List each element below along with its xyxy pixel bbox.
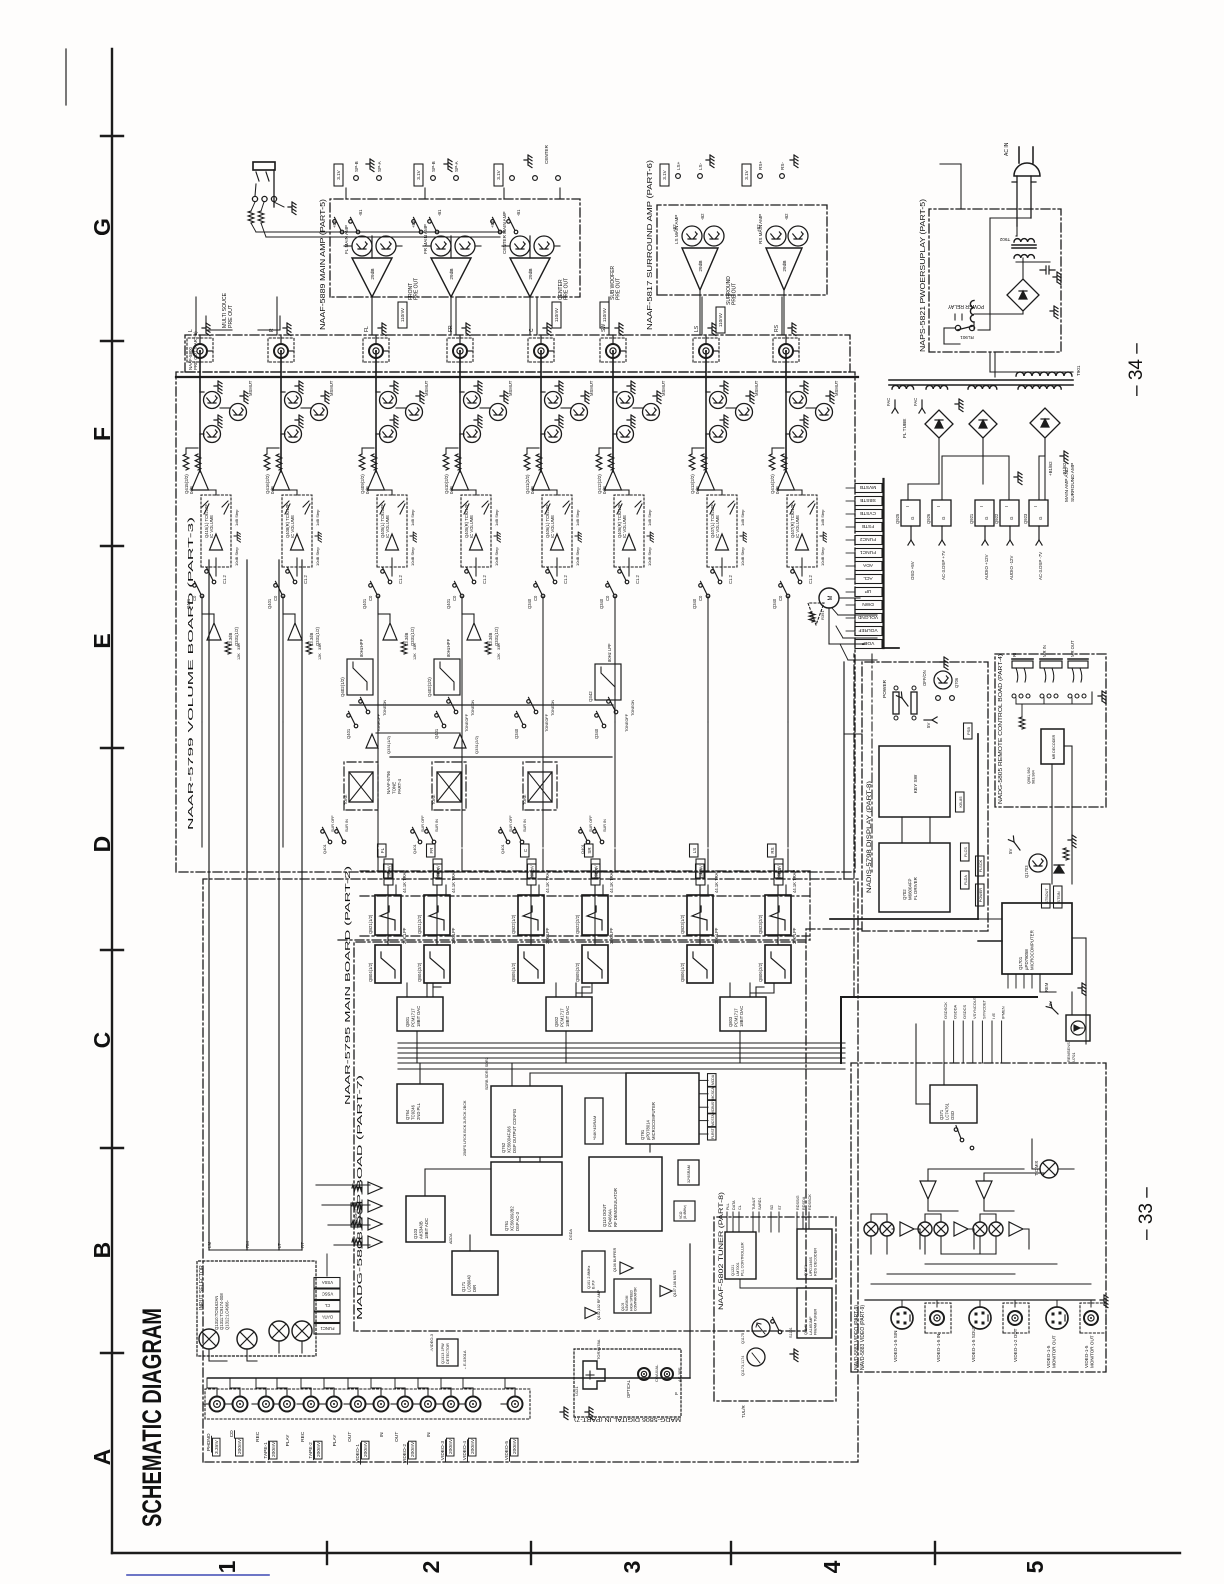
svg-text:FUNC1: FUNC1 bbox=[320, 1326, 335, 1331]
svg-text:IN: IN bbox=[379, 1432, 385, 1437]
svg-text:TONEOFF: TONEOFF bbox=[545, 713, 549, 732]
wire preout feeds bbox=[199, 360, 201, 372]
wire bbox=[467, 350, 473, 352]
ground bbox=[788, 323, 796, 336]
svg-text:QB22(2/2): QB22(2/2) bbox=[575, 914, 580, 934]
svg-text:TORX178A: TORX178A bbox=[596, 1339, 601, 1360]
wire relay routing bbox=[989, 218, 991, 330]
svg-text:44.1K TRAP: 44.1K TRAP bbox=[451, 870, 456, 893]
svg-text:TUL/R: TUL/R bbox=[741, 1405, 746, 1418]
wire dsp-display dash link bbox=[805, 929, 807, 942]
svg-text:SP-A: SP-A bbox=[377, 160, 382, 172]
transistor output pair bbox=[766, 226, 786, 246]
svg-text:+B2: +B2 bbox=[756, 224, 761, 232]
switch C1 bbox=[553, 580, 557, 584]
net tag KB-85 bbox=[956, 792, 965, 812]
wire regulator output bbox=[984, 526, 986, 540]
svg-text:200mV: 200mV bbox=[448, 1438, 454, 1454]
svg-text:PD4664A: PD4664A bbox=[608, 1209, 613, 1227]
svg-text:PLL: PLL bbox=[726, 1203, 730, 1210]
op-amp 13.3dB bbox=[207, 623, 221, 640]
transistor Q409 mute pair bbox=[380, 392, 397, 409]
wire source line bbox=[246, 560, 248, 1250]
motor M volume bbox=[819, 588, 839, 608]
source jack PHONO bbox=[210, 1397, 225, 1412]
svg-text:SUR OFF: SUR OFF bbox=[589, 815, 593, 832]
net tags FLCS FLSCK FLDA POWER bbox=[961, 843, 970, 861]
svg-text:R391: R391 bbox=[820, 610, 825, 620]
wire trap to volume bbox=[395, 885, 397, 895]
capacitor bbox=[1040, 266, 1055, 274]
ADC Q103 AK5340B bbox=[406, 1196, 445, 1242]
DAC Q801 PCM1717 bbox=[397, 997, 443, 1031]
svg-text:MVSTB: MVSTB bbox=[860, 484, 877, 490]
DSP Q762 XC56004FJ66 output config bbox=[491, 1086, 562, 1157]
svg-text:C1.2: C1.2 bbox=[303, 574, 308, 584]
wire dac outputs bbox=[406, 983, 408, 997]
svg-text:STSOUT: STSOUT bbox=[1045, 888, 1049, 904]
svg-text:18BIT DAC: 18BIT DAC bbox=[416, 1006, 421, 1027]
svg-text:0dB: 0dB bbox=[365, 486, 370, 494]
transistor Q501 output pair bbox=[352, 236, 372, 256]
svg-text:*64K*4DRAM: *64K*4DRAM bbox=[592, 1116, 597, 1140]
op-amp Q414 0dB bbox=[778, 470, 795, 490]
op-amp 13.3dB bbox=[383, 623, 397, 640]
resistor feedback bbox=[485, 642, 491, 654]
svg-text:Q401: Q401 bbox=[186, 598, 191, 609]
svg-text:I: I bbox=[1004, 506, 1009, 507]
svg-text:+B1: +B1 bbox=[332, 220, 337, 228]
filter QB21(2/2) 44.1K TRAP bbox=[424, 895, 450, 935]
microcomputer Q1701 uPD78058 bbox=[1002, 903, 1072, 974]
svg-text:2ND PLL: 2ND PLL bbox=[416, 1102, 421, 1120]
svg-text:NAAF-5817 SURROUND AMP (PART-6: NAAF-5817 SURROUND AMP (PART-6) bbox=[645, 159, 654, 330]
svg-text:MSMUT: MSMUT bbox=[834, 380, 839, 396]
power amp FR MAIN AMP triangle bbox=[431, 258, 471, 297]
svg-text:-B2: -B2 bbox=[700, 213, 705, 220]
wire display to micro bus bbox=[978, 940, 1002, 942]
transistor mute bbox=[643, 404, 660, 421]
switch C1 bbox=[293, 580, 297, 584]
IC volume Q407(R) dotted block bbox=[787, 495, 817, 567]
svg-text:G: G bbox=[1038, 516, 1043, 520]
svg-text:POWER RELAY: POWER RELAY bbox=[947, 303, 984, 309]
svg-text:CL: CL bbox=[738, 1205, 742, 1210]
svg-text:IN: IN bbox=[426, 1432, 432, 1437]
switch Q401 C0 bbox=[376, 594, 380, 598]
resistor variable bbox=[202, 501, 209, 514]
net tag 200mV SR bbox=[591, 859, 600, 885]
svg-text:FLDA: FLDA bbox=[964, 875, 968, 885]
svg-text:AC-3.DSP +7V: AC-3.DSP +7V bbox=[941, 551, 946, 580]
net tag 200mV adc bbox=[351, 1203, 360, 1227]
border frame vertical rule with grid numbers bbox=[112, 1552, 1180, 1554]
grid tick bbox=[326, 1542, 328, 1564]
svg-text:3: 3 bbox=[619, 1561, 645, 1574]
transistor mute bbox=[816, 404, 833, 421]
svg-text:NAAR-5799 VOLUME BOARD (PART-: NAAR-5799 VOLUME BOARD (PART-3) bbox=[186, 516, 195, 830]
source jack OUT bbox=[351, 1397, 366, 1412]
rectifier bridge DSP bbox=[969, 410, 997, 438]
wire regulator output bbox=[1009, 526, 1011, 540]
switch Q401 C0 bbox=[460, 594, 464, 598]
wire source line bbox=[208, 560, 210, 1250]
svg-text:IC VOLUME: IC VOLUME bbox=[209, 515, 214, 538]
svg-text:MONITOR OUT: MONITOR OUT bbox=[1051, 1335, 1056, 1368]
switch Q340 C0 bbox=[613, 594, 617, 598]
wire amp rails bbox=[371, 297, 373, 335]
svg-text:QB23(1/2): QB23(1/2) bbox=[680, 914, 685, 934]
svg-text:ST: ST bbox=[778, 1204, 782, 1210]
power amp FL MAIN AMP triangle bbox=[352, 258, 392, 297]
speaker terminal circle bbox=[454, 176, 459, 181]
svg-text:Q921: Q921 bbox=[969, 513, 974, 524]
wire volume control bus bbox=[829, 643, 866, 645]
svg-text:FUNC1: FUNC1 bbox=[860, 549, 876, 555]
svg-text:C0: C0 bbox=[192, 595, 197, 601]
wire to speaker bbox=[424, 188, 426, 199]
pre-out jack FL bbox=[363, 338, 389, 362]
wire main board to display bbox=[843, 662, 845, 879]
wire channel Q416 spine bbox=[280, 351, 282, 470]
svg-text:T901: T901 bbox=[1076, 365, 1081, 376]
transistor Q1703 bbox=[1029, 854, 1047, 872]
svg-text:3.1V: 3.1V bbox=[496, 169, 501, 179]
svg-text:MONITOR OUT: MONITOR OUT bbox=[1089, 1335, 1094, 1368]
filter QB06(2/2) 25K LPF bbox=[765, 945, 791, 983]
svg-text:VOLP: VOLP bbox=[862, 640, 875, 646]
net tag 200mV FR bbox=[433, 859, 442, 885]
grid tick bbox=[101, 1147, 123, 1149]
svg-text:Q340: Q340 bbox=[772, 598, 777, 609]
svg-text:VSYNCOUT: VSYNCOUT bbox=[972, 996, 977, 1019]
svg-text:IC VOLUME: IC VOLUME bbox=[550, 515, 555, 538]
wire channel feed from preout bbox=[455, 297, 457, 335]
svg-text:SUR IN: SUR IN bbox=[603, 819, 607, 832]
ground bbox=[462, 323, 470, 336]
wire bbox=[786, 489, 802, 491]
svg-text:T902: T902 bbox=[999, 237, 1010, 242]
svg-text:AC-3RF: AC-3RF bbox=[677, 1367, 682, 1382]
wire bbox=[371, 236, 373, 258]
filter QB22(2/2) 44.1K TRAP bbox=[582, 895, 608, 935]
detector Q1313 1PW bbox=[437, 1339, 458, 1366]
svg-text:OSD: OSD bbox=[950, 1111, 955, 1120]
ground bbox=[708, 323, 716, 336]
svg-text:18BIT DAC: 18BIT DAC bbox=[739, 1006, 744, 1027]
svg-text:C1.2: C1.2 bbox=[222, 574, 227, 584]
buffer Q106 bbox=[620, 1262, 633, 1274]
switch Q340 C0 bbox=[786, 594, 790, 598]
wire decoder to micro bbox=[1051, 764, 1053, 884]
svg-text:1dB Step: 1dB Step bbox=[575, 509, 580, 526]
mixer input selector Q1311 bbox=[237, 1329, 257, 1349]
wire bbox=[200, 489, 216, 491]
resistor variable bbox=[615, 501, 622, 514]
svg-text:Q371: Q371 bbox=[939, 1109, 944, 1120]
resistor variable bbox=[283, 501, 290, 514]
op-amp Q416 0dB bbox=[273, 470, 290, 490]
svg-text:PCM1717: PCM1717 bbox=[733, 1008, 738, 1027]
grid tick bbox=[101, 135, 123, 137]
source jack VIDEO-4 bbox=[466, 1397, 481, 1412]
svg-text:32*8SRAM: 32*8SRAM bbox=[687, 1165, 691, 1183]
svg-text:COMPARATOR: COMPARATOR bbox=[634, 1287, 638, 1311]
svg-text:MICROCOMPUTER: MICROCOMPUTER bbox=[651, 1102, 656, 1140]
svg-text:200mV: 200mV bbox=[699, 865, 704, 878]
svg-text:200mV: 200mV bbox=[271, 1441, 277, 1457]
svg-text:QB06(1/2): QB06(1/2) bbox=[680, 962, 685, 982]
wire channel Q413 spine bbox=[705, 351, 707, 470]
svg-text:Q761: Q761 bbox=[504, 1220, 509, 1231]
filter QB21(1/2) 44.1K TRAP bbox=[375, 895, 401, 935]
svg-text:IC VOLUME: IC VOLUME bbox=[290, 515, 295, 538]
svg-text:I: I bbox=[936, 506, 941, 507]
svg-text:5V: 5V bbox=[1048, 1001, 1053, 1006]
svg-text:I: I bbox=[905, 506, 910, 507]
svg-text:Q1701: Q1701 bbox=[1018, 956, 1023, 970]
wire tuner signals bbox=[726, 1212, 728, 1232]
svg-text:G: G bbox=[910, 516, 915, 520]
net tags MCDA..FLRST bbox=[708, 1127, 717, 1140]
svg-text:200mV: 200mV bbox=[436, 865, 441, 878]
svg-text:NADG-5805 REMOTE CONTROL BOAD: NADG-5805 REMOTE CONTROL BOAD (PART-4) bbox=[998, 654, 1004, 804]
svg-text:Q340: Q340 bbox=[527, 598, 532, 609]
svg-text:PART-4: PART-4 bbox=[397, 778, 402, 794]
filter QB04(1/2) 25K LPF bbox=[375, 945, 401, 983]
svg-text:3.3mV: 3.3mV bbox=[214, 1439, 220, 1454]
svg-text:OFF/ON: OFF/ON bbox=[922, 670, 927, 686]
transistor Q410 mute pair bbox=[464, 392, 481, 409]
speaker terminal circle bbox=[533, 176, 538, 181]
net tag 200mV LS bbox=[696, 859, 705, 885]
wire q762-q791 bbox=[529, 1073, 531, 1086]
net tag SR bbox=[592, 864, 601, 878]
resistor Q411 input pair bbox=[524, 454, 530, 470]
grid tick bbox=[934, 1542, 936, 1564]
resistor Q410 input pair bbox=[443, 454, 449, 470]
switch video osd bbox=[960, 1138, 964, 1142]
svg-text:FLCS: FLCS bbox=[964, 847, 968, 857]
mute amp Q107,108 bbox=[660, 1286, 672, 1297]
svg-text:OPTICAL: OPTICAL bbox=[626, 1379, 631, 1398]
speaker terminal circle bbox=[510, 176, 515, 181]
transistor mute bbox=[230, 404, 247, 421]
svg-text:DGDA: DGDA bbox=[569, 1229, 573, 1240]
svg-text:FUNC2: FUNC2 bbox=[860, 536, 876, 542]
svg-text:Q764: Q764 bbox=[405, 1109, 410, 1120]
svg-text:QB04(2/2): QB04(2/2) bbox=[417, 962, 422, 982]
svg-text:OUT: OUT bbox=[394, 1432, 400, 1442]
IC volume Q406(R) dotted block bbox=[614, 495, 644, 567]
wire bbox=[375, 351, 377, 392]
svg-text:C0: C0 bbox=[605, 595, 610, 601]
svg-text:QB05(2/2): QB05(2/2) bbox=[575, 962, 580, 982]
svg-text:XC56004FJ66: XC56004FJ66 bbox=[507, 1126, 512, 1153]
wire channel Q409 spine bbox=[375, 351, 377, 470]
svg-text:TUNUT: TUNUT bbox=[752, 1196, 756, 1210]
svg-text:VIDEO-1-5: VIDEO-1-5 bbox=[1046, 1345, 1051, 1368]
svg-text:NAVD-5883 VIDEO (PART-9): NAVD-5883 VIDEO (PART-9) bbox=[860, 1305, 866, 1370]
wire bbox=[713, 350, 719, 352]
svg-text:(8.4MHz): (8.4MHz) bbox=[683, 1205, 687, 1219]
wire micro outputs bbox=[1072, 937, 1086, 939]
transistor Q414 mute pair bbox=[790, 392, 807, 409]
label SURROUND PRE OUT 110mV bbox=[716, 307, 725, 333]
transistor Q416 mute pair bbox=[285, 392, 302, 409]
svg-text:VSSC: VSSC bbox=[322, 1292, 333, 1297]
svg-text:1dB Step: 1dB Step bbox=[647, 509, 652, 526]
svg-text:L: L bbox=[188, 329, 194, 332]
wire bbox=[199, 462, 201, 470]
wire jack stub bbox=[273, 1403, 280, 1405]
wire ps to T901 bbox=[989, 352, 991, 372]
svg-text:-B1: -B1 bbox=[358, 209, 363, 216]
switch relay contact +B1 bbox=[498, 230, 502, 234]
board outline NAAR-5795 MAIN BOARD (PART-2) bbox=[203, 879, 858, 1462]
pre-out jack L bbox=[187, 338, 213, 362]
svg-text:LA1851MF: LA1851MF bbox=[809, 1316, 813, 1335]
wire source line bbox=[278, 560, 280, 1250]
svg-text:200mV: 200mV bbox=[237, 1438, 243, 1454]
svg-text:TONEON: TONEON bbox=[471, 700, 475, 716]
svg-text:F: F bbox=[89, 427, 115, 441]
svg-text:MSMUT: MSMUT bbox=[329, 380, 334, 396]
svg-text:VSSA: VSSA bbox=[322, 1280, 333, 1285]
svg-text:KB-85: KB-85 bbox=[958, 796, 963, 808]
wire bbox=[620, 350, 626, 352]
svg-text:SURROUND AMP: SURROUND AMP bbox=[1070, 463, 1076, 502]
net tag rail bbox=[882, 479, 884, 648]
wire bbox=[594, 885, 596, 895]
svg-text:Q1221: Q1221 bbox=[731, 1265, 735, 1276]
speaker terminal circle bbox=[431, 176, 436, 181]
board outline NAAF-5802 TUNER (PART-8) bbox=[714, 1217, 836, 1401]
svg-text:U701: U701 bbox=[1071, 1052, 1076, 1062]
svg-text:AUDIO -12V: AUDIO -12V bbox=[1009, 556, 1014, 580]
filter QB23(1/2) 44.1K TRAP bbox=[687, 895, 713, 935]
coaxial jack bbox=[638, 1368, 650, 1380]
svg-text:5V: 5V bbox=[1008, 849, 1013, 854]
AC-3RF jack bbox=[661, 1368, 673, 1380]
RF amp Q102,103 bbox=[585, 1308, 597, 1319]
wire channel feed from preout bbox=[536, 297, 538, 335]
source jack VIDEO-5 bbox=[508, 1397, 523, 1412]
svg-text:10dB Step: 10dB Step bbox=[315, 547, 320, 566]
resistor Q412 input pair bbox=[596, 454, 602, 470]
svg-text:10dB Step: 10dB Step bbox=[494, 547, 499, 566]
svg-text:0dB: 0dB bbox=[449, 486, 454, 494]
transistor Q413 mute pair bbox=[710, 392, 727, 409]
wire bbox=[280, 351, 282, 392]
wire bbox=[529, 236, 531, 258]
svg-text:Q401: Q401 bbox=[500, 843, 505, 854]
svg-text:Q981,982: Q981,982 bbox=[1027, 767, 1031, 784]
rectifier bridge power bbox=[1007, 279, 1039, 311]
net tag RS bbox=[775, 864, 784, 878]
wire display bus bbox=[830, 918, 978, 920]
svg-text:XC56009JB2: XC56009JB2 bbox=[510, 1206, 515, 1231]
op-amp Q407(R) bbox=[796, 534, 809, 550]
op-amp Q407(L) bbox=[716, 534, 729, 550]
wire main source lines bbox=[208, 1249, 210, 1251]
svg-text:Q1175: Q1175 bbox=[741, 1333, 745, 1344]
wire channel to filters bbox=[377, 596, 379, 722]
wire to speaker bbox=[345, 188, 347, 199]
wire channel Q412 spine bbox=[612, 351, 614, 470]
wire micro outputs bundle bbox=[1007, 974, 1009, 988]
wire bbox=[705, 351, 707, 392]
net tags STSOUT STSIN bbox=[1042, 884, 1051, 908]
label FRONT PRE OUT 110mV bbox=[398, 302, 407, 328]
svg-text:CENTER: CENTER bbox=[544, 144, 549, 164]
svg-text:QB04(1/2): QB04(1/2) bbox=[368, 962, 373, 982]
svg-text:1dB Step: 1dB Step bbox=[820, 509, 825, 526]
wire bbox=[459, 462, 461, 470]
op-amp Q331 tone bbox=[366, 734, 378, 748]
wire q761-q762 bbox=[519, 1157, 521, 1162]
wire power to amps bbox=[994, 352, 996, 377]
svg-text:ADDA: ADDA bbox=[449, 1233, 453, 1244]
ground bbox=[1078, 983, 1086, 996]
ground bbox=[790, 1349, 798, 1362]
svg-text:IPMEN: IPMEN bbox=[1001, 1006, 1006, 1019]
tone control block NAAF-5796 bbox=[432, 762, 466, 810]
video mixers row 2 bbox=[918, 1222, 932, 1236]
wire bbox=[199, 351, 201, 392]
wire bbox=[387, 885, 389, 895]
wire channel Q411 spine bbox=[540, 351, 542, 470]
resistor Q413 input pair bbox=[689, 454, 695, 470]
wire bbox=[793, 350, 799, 352]
DIR Q171 LC89040 bbox=[452, 1251, 498, 1295]
svg-text:POWER: POWER bbox=[979, 888, 983, 903]
wire micro to remote bbox=[1039, 974, 1041, 992]
svg-text:RF DEMODULATOR: RF DEMODULATOR bbox=[613, 1188, 618, 1227]
optical receiver U121 TORX178A bbox=[583, 1361, 605, 1389]
svg-text:110mV: 110mV bbox=[554, 307, 559, 322]
wire selector to jacks bbox=[209, 1341, 302, 1361]
svg-text:G: G bbox=[941, 516, 946, 520]
DRAM *64K*4DRAM bbox=[585, 1098, 603, 1144]
wire tuner internal bbox=[739, 1279, 741, 1288]
ground bbox=[366, 159, 374, 172]
svg-text:RS-: RS- bbox=[780, 162, 785, 170]
wire dac outputs bbox=[555, 983, 557, 997]
RDS decoder Q1181 UPD1346S bbox=[797, 1229, 832, 1279]
svg-text:1dB Step: 1dB Step bbox=[740, 509, 745, 526]
svg-text:PLAY: PLAY bbox=[332, 1434, 338, 1447]
rectifier bridge audio bbox=[1030, 408, 1060, 438]
svg-text:Q401: Q401 bbox=[267, 598, 272, 609]
grid tick bbox=[101, 747, 123, 749]
wire bbox=[383, 350, 389, 352]
svg-text:UP: UP bbox=[865, 588, 872, 594]
svg-text:STSIN: STSIN bbox=[1057, 891, 1061, 902]
svg-text:0dB: 0dB bbox=[270, 486, 275, 494]
buffer amplifier ladder bbox=[368, 1236, 382, 1248]
switch Q340 C0 bbox=[541, 594, 545, 598]
svg-text:PRE OUT: PRE OUT bbox=[616, 278, 622, 300]
wire jack stub bbox=[344, 1403, 351, 1405]
svg-text:3.1V: 3.1V bbox=[416, 169, 421, 179]
svg-text:AC-3.DSP -7V: AC-3.DSP -7V bbox=[1038, 552, 1043, 580]
svg-text:µPD78014: µPD78014 bbox=[646, 1119, 651, 1140]
wire volume cross bus bbox=[350, 704, 613, 706]
filter QB23(2/2) 44.1K TRAP bbox=[765, 895, 791, 935]
svg-text:Q926: Q926 bbox=[926, 513, 931, 524]
svg-text:RS: RS bbox=[770, 847, 775, 853]
